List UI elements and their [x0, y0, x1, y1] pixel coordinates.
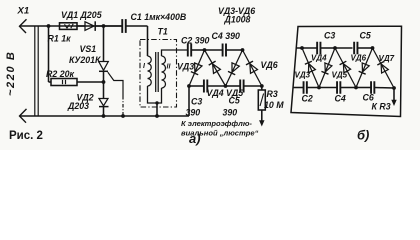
resistor R2 power mark	[62, 80, 64, 84]
wire apex to C5b	[335, 47, 353, 49]
wire R2 to VS1 cathode	[77, 81, 104, 83]
wire top mains	[20, 25, 122, 27]
node junction T1 bottom	[155, 114, 159, 118]
svg-text:С3: С3	[324, 31, 335, 41]
diode VD4 (b)	[319, 48, 335, 88]
svg-text:10 М: 10 М	[264, 100, 284, 110]
node b2 junction	[333, 46, 337, 50]
wire C5 to node E	[244, 85, 262, 87]
node b3 junction	[371, 46, 375, 50]
output wire to chandelier	[261, 110, 263, 121]
node B junction	[241, 48, 245, 52]
svg-text:R3: R3	[267, 89, 278, 99]
wire T1 common to bottom mains	[156, 103, 158, 116]
capacitor C2	[187, 44, 189, 57]
diode VD3 (b)	[302, 48, 319, 88]
svg-text:R1 1к: R1 1к	[48, 34, 72, 44]
svg-text:Х1: Х1	[17, 6, 30, 17]
connector X1 upper pin arrow	[20, 19, 27, 33]
transformer T1 screen box	[140, 40, 177, 108]
thyristor VS1 gate lead	[108, 72, 123, 96]
capacitor C3 (b)	[316, 42, 318, 55]
node b4 junction	[317, 86, 321, 90]
capacitor C3	[203, 80, 205, 93]
svg-text:Рис. 2: Рис. 2	[9, 130, 43, 142]
wire node b5 to C6b	[356, 87, 371, 89]
node C junction	[187, 84, 191, 88]
capacitor C4	[222, 44, 224, 57]
svg-text:С4: С4	[335, 94, 346, 104]
resistor R1	[60, 23, 78, 30]
diode VD3	[189, 50, 205, 86]
svg-text:VД6: VД6	[351, 54, 367, 63]
svg-text:С2 390: С2 390	[181, 36, 209, 46]
wire node b4 to C4b	[319, 87, 337, 89]
diode VD6 (b)	[356, 48, 373, 88]
thyristor VS1 gate lead lower (broken print)	[122, 96, 124, 116]
svg-text:VД7: VД7	[379, 54, 395, 63]
node junction VD2 to bottom wire	[102, 114, 106, 118]
node b1 junction	[300, 46, 304, 50]
wire mains double lines	[34, 26, 36, 116]
wire C5b to apex2	[358, 47, 373, 49]
wire bottom rail riser	[188, 86, 190, 116]
diode VD5	[226, 50, 243, 86]
node E junction	[260, 84, 264, 88]
diode VD5 (b)	[335, 48, 356, 88]
wire C1 to T1 primary	[126, 25, 147, 27]
diode VD2	[99, 99, 108, 106]
transformer T1 primary winding I	[148, 56, 152, 86]
wire secondary top to C2	[162, 50, 188, 56]
node b5 junction	[354, 86, 358, 90]
diode VD1	[77, 25, 85, 27]
wire node C to C3	[189, 85, 204, 87]
svg-text:VД4: VД4	[311, 54, 327, 63]
svg-text:К электроэффлю-: К электроэффлю-	[181, 119, 252, 128]
node junction windings common	[155, 101, 158, 104]
connector X1 lower pin arrow	[20, 109, 27, 123]
output arrow	[259, 120, 264, 126]
svg-text:I: I	[143, 63, 146, 70]
capacitor C4 (b)	[336, 81, 338, 94]
resistor R3	[261, 86, 263, 90]
svg-text:К R3: К R3	[372, 102, 391, 112]
wire b top rail input	[296, 47, 317, 49]
wire C2b to node b4	[307, 87, 319, 89]
wire to C1	[104, 25, 122, 27]
node junction VS1 cathode / R2	[102, 80, 106, 84]
diode VD6	[243, 50, 262, 86]
node junction VS1 anode	[102, 24, 106, 28]
wire bottom mains	[20, 115, 190, 117]
svg-text:VS1: VS1	[80, 44, 97, 54]
capacitor C6 (b)	[370, 81, 372, 94]
svg-text:б): б)	[357, 128, 369, 143]
wire C2 to node A	[191, 49, 204, 51]
svg-text:С3: С3	[191, 97, 202, 107]
thyristor VS1	[103, 26, 105, 62]
wire b bottom rail input	[293, 87, 303, 89]
capacitor C2 (b)	[303, 81, 305, 94]
svg-text:VД3: VД3	[177, 62, 194, 72]
capacitor C5	[239, 80, 241, 93]
capacitor C1	[121, 19, 123, 33]
wire windings common bottom	[148, 86, 162, 103]
resistor R2	[51, 79, 77, 86]
wire C3b to apex	[321, 47, 336, 49]
svg-text:R2 20к: R2 20к	[46, 69, 74, 79]
wire C4 to node B	[226, 49, 243, 51]
transformer T1 secondary winding II	[162, 56, 166, 88]
capacitor C5 (b)	[353, 42, 355, 55]
wire C4b to node b5	[340, 87, 356, 89]
diode VD4	[205, 50, 226, 86]
output arrow to R3	[391, 100, 396, 106]
svg-text:Д1008: Д1008	[224, 15, 251, 25]
svg-text:Т1: Т1	[158, 27, 168, 37]
svg-text:VД3: VД3	[295, 71, 311, 80]
node junction R2 tap	[47, 24, 51, 28]
output wire to R3	[393, 88, 395, 101]
wire node D to C5	[226, 85, 241, 87]
svg-text:II: II	[167, 64, 172, 71]
svg-text:С5: С5	[360, 31, 371, 41]
svg-text:~220 В: ~220 В	[5, 51, 17, 96]
svg-text:КУ201К: КУ201К	[69, 55, 101, 65]
node junction gate lead to bottom wire	[121, 114, 125, 118]
svg-text:VД5: VД5	[332, 71, 348, 80]
node b6 output junction	[392, 86, 396, 90]
wire C6b to output node	[374, 87, 394, 90]
svg-text:VД1 Д205: VД1 Д205	[61, 10, 102, 20]
transformer T1 core	[155, 52, 157, 92]
resistor R1 power mark	[65, 24, 70, 28]
wire R2 branch vertical	[48, 26, 50, 82]
svg-text:С1 1мк×400В: С1 1мк×400В	[131, 12, 187, 22]
svg-text:390: 390	[223, 108, 238, 118]
node A junction	[203, 48, 207, 52]
svg-text:а): а)	[189, 131, 201, 146]
svg-text:VД4 VД5: VД4 VД5	[207, 88, 244, 98]
variant b) enclosure box	[291, 26, 402, 116]
diode VD7 (b)	[373, 48, 395, 88]
svg-text:С4 390: С4 390	[212, 31, 240, 41]
wire C3 to node D	[207, 85, 225, 87]
wire node A to C4	[205, 49, 223, 51]
svg-text:Д203: Д203	[67, 101, 89, 111]
node D junction	[224, 84, 228, 88]
svg-text:390: 390	[186, 108, 201, 118]
svg-text:VД6: VД6	[261, 60, 278, 70]
svg-text:С2: С2	[302, 94, 313, 104]
